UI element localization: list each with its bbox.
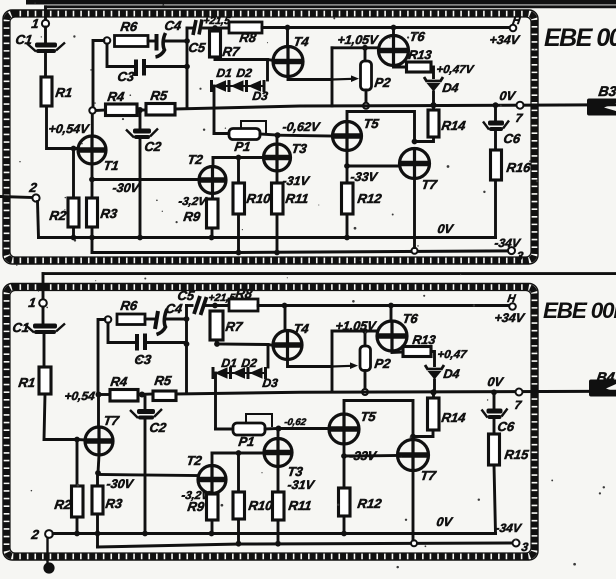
junction T1/R3/-30V net (lower) [95,470,101,476]
wire R4 left lead (lower) [101,393,110,396]
svg-text:-3,2V: -3,2V [181,490,211,502]
junction C3/riser (upper) [184,64,190,70]
svg-text:R8: R8 [235,286,254,301]
svg-text:C3: C3 [134,352,153,367]
junction C5/R7/R8 (lower) [212,303,218,309]
svg-text:D3: D3 [252,89,270,103]
junction T5/R12/T7 base (lower) [341,453,347,459]
wire to P1 left (lower) [216,428,234,431]
wire C3 to riser (upper) [146,65,186,68]
capacitor C4 (upper) [156,33,166,57]
wire R3 to -34V rail (lower) [96,514,99,547]
wire 0V line to R14 (lower) [432,392,435,398]
resistor R7 (lower) [210,311,223,340]
resistor R12 (upper) [342,183,354,214]
svg-text:+34V: +34V [494,311,527,325]
wire T5 collector to T7 collector net (lower) [344,401,413,437]
svg-text:D4: D4 [442,81,460,95]
junction R3 crossing 0V rail (upper) [89,235,95,241]
node R6/C3 left (upper) [104,37,111,44]
wire R7 bottom (lower) [215,340,218,344]
resistor R13 (lower) [403,347,431,357]
wire node to C3 left (upper) [107,44,133,67]
junction P1/T3 collector/-0,62V node (upper) [275,132,281,138]
svg-text:R2: R2 [49,208,68,223]
svg-text:-30V: -30V [106,477,136,491]
svg-text:-0,62V: -0,62V [282,120,322,134]
wire T4 base to diode chain right (upper) [266,60,269,81]
diode D4 (upper) [424,77,443,92]
resistor R4 (lower) [110,390,138,402]
wire R10 to -34V rail (upper) [237,214,240,253]
resistor R5 (upper) [146,104,175,116]
svg-text:R10: R10 [248,498,275,513]
junction R12/0V rail (lower) [341,531,347,537]
wire R7 to T4 base (lower) [217,344,274,346]
junction R4/R5/C2 (upper) [137,107,143,113]
transistor T4 (upper) [273,47,303,77]
capacitor C3 (upper) [136,59,144,76]
wire junction to R2 (lower) [76,440,79,487]
wire R9 to 0V rail (lower) [211,520,214,534]
wire P1 right lead (upper) [260,134,276,135]
wire R7 to T4 base (upper) [215,60,274,61]
junction R9/0V rail (lower) [209,531,215,537]
junction D4/R14/0V line (lower) [430,389,436,395]
wire terminal 2 down out of block (lower) [46,538,48,568]
wire R12 to 0V rail (upper) [346,214,349,238]
wire 0V output line to B4 (lower) [176,391,616,394]
wire node to P2 (lower) [364,331,367,346]
wire P1 wiper bracket (upper) [241,121,266,132]
potentiometer P1 (lower) [233,423,265,435]
wire R15 to 0V rail corner (lower) [494,465,496,534]
wire junction to R10 (upper) [237,158,240,184]
svg-text:T3: T3 [287,464,305,479]
wire riser C4/C3 to 0V output line (upper) [186,28,189,107]
wire terminal1 to C1 (lower) [42,307,45,324]
transistor T5 (lower) [329,414,359,444]
junction T6 collector/+34V (upper) [391,25,397,31]
resistor R8 (lower) [229,299,258,311]
transistor T3 (upper) [264,144,291,171]
junction C4/riser (lower) [184,316,190,322]
svg-text:D2: D2 [241,356,259,370]
wire +34V to T6 collector (upper) [392,28,395,36]
junction T5/R12/T7 base (upper) [344,163,350,169]
capacitor C5 (upper) [193,20,202,36]
wire node down to R4 node (lower) [98,320,105,392]
wire +34V rail (lower) [258,304,509,307]
junction R11/-34V rail (lower) [275,541,281,547]
capacitor C4 (lower) [155,309,167,335]
wire 0V line to C6 (upper) [494,105,497,120]
wire -34V rail (upper) [92,251,511,253]
wire junction to R8 (lower) [215,304,229,307]
terminal 3 (lower block) [513,540,520,547]
wire C1 to R1 (upper) [44,54,47,78]
resistor R10 (lower) [233,492,245,519]
terminal 1 (upper block) [42,20,49,27]
svg-text:T4: T4 [293,34,311,49]
svg-text:R5: R5 [154,373,173,388]
svg-text:+21,5: +21,5 [203,15,231,27]
wire R11 to -34V rail (upper) [276,214,279,253]
svg-text:+34V: +34V [489,33,522,47]
terminal 11 +34V (lower) [509,303,516,310]
potentiometer P2 (lower) [360,346,371,371]
wire terminal 2 down to 0V rail (upper) [38,202,39,238]
svg-text:T6: T6 [409,29,427,44]
P2 wiper arrow (upper) [332,75,359,82]
wire -30V net T1 to T2 base (lower) [98,475,198,476]
diode chain D1 D2 D3 (lower) [213,367,266,379]
wire node down to R4 node (upper) [93,41,104,108]
transistor T7 (lower) [398,440,429,471]
capacitor C1 (lower) [25,324,65,335]
wire R4 to R5 (upper) [137,109,146,112]
svg-text:R9: R9 [183,209,202,224]
svg-text:+0,54V: +0,54V [48,122,92,136]
wire node to C3 left (lower) [108,323,134,343]
junction T6 collector/+34V (lower) [388,303,394,309]
wire 0V line to C6 (lower) [493,392,496,408]
wire P2 top net riser (lower) [331,331,334,392]
wire T3 emitter to R11 (upper) [276,171,279,183]
wire C4 to riser (upper) [166,40,186,43]
wire T2 emitter to R9 (lower) [211,492,214,495]
wire riser to C5 (lower) [187,304,193,307]
svg-text:C4: C4 [165,301,184,316]
svg-text:R13: R13 [412,333,437,347]
transistor T6 (lower) [377,321,407,351]
wire R13 to D4 (lower) [431,352,435,366]
wire R1 to T1 base (lower) [44,394,77,440]
terminal 2 (lower block) [45,530,53,538]
wire junction to T7 base (lower) [344,454,398,457]
resistor R11 (lower) [273,492,285,520]
svg-text:T2: T2 [187,152,205,167]
wire R3 to -34V rail (upper) [91,227,94,253]
capacitor C1 (upper) [27,43,65,54]
wire R7 bottom (upper) [214,57,217,60]
wire +34V to T4 collector (lower) [284,306,287,331]
resistor R3 (upper) [87,198,98,227]
capacitor C5 (lower) [194,296,207,315]
junction T1/R3/-30V net (upper) [89,177,95,183]
wire C4 to riser (lower) [167,318,186,321]
wire C1 to R1 (lower) [43,335,46,367]
wire 0V return rail (upper) [39,236,496,239]
junction T4 collector/+34V (upper) [285,25,291,31]
junction P2 bottom/0V line (upper) [363,103,369,109]
wire input net to terminal 1 (upper block) [46,5,616,8]
wire +34V to T4 collector (upper) [286,28,289,47]
wire 0V return rail (lower) [53,532,496,535]
wire R12 to 0V rail (lower) [343,516,346,534]
wire riser into terminal 1 (lower block) [42,274,45,299]
resistor R7 (upper) [210,31,221,57]
terminal 1 (lower block) [39,299,47,307]
transistor T4 (lower) [273,331,302,360]
wire +34V to T6 collector (lower) [390,306,393,322]
wire R14 bottom elbow (upper) [415,137,434,142]
svg-text:C4: C4 [164,18,183,33]
wire T4 base to diode chain right (lower) [267,345,270,368]
svg-text:R7: R7 [225,319,244,334]
terminal 2 (upper block) [32,194,39,201]
wire node to T5 base (lower) [279,427,330,430]
svg-text:R1: R1 [55,85,74,100]
module frame (lower block EBE 00i) [3,284,538,561]
wire T7 emitter to -34V rail (upper) [413,179,416,248]
svg-text:R11: R11 [288,498,313,513]
wire 0V output line to B3 (upper) [175,105,616,109]
wire node to P2 (upper) [364,48,367,61]
junction P1/T3 collector node (lower) [276,426,282,432]
wire R4/R5 node to C2 (lower) [144,397,147,409]
wire R4 left lead (upper) [96,109,106,112]
svg-text:R15: R15 [504,447,531,462]
wire -34V rail (lower) [98,543,513,547]
wire junction to R3 (lower) [96,473,99,486]
wire R9 to 0V rail (upper) [211,228,214,238]
svg-text:-0,62: -0,62 [284,417,308,428]
resistor R15 (lower) [489,434,500,465]
wire P2 top net riser (upper) [331,48,334,106]
resistor R1 (lower) [39,367,51,394]
terminal 7 (upper) [517,102,524,109]
connector B3 (right edge, upper) [587,99,616,116]
resistor R1 (upper) [41,77,52,106]
wire C5 to R7 top (lower) [205,304,215,307]
terminal 7 (lower) [516,389,523,396]
svg-text:R16: R16 [506,160,533,175]
wire elbow to T2 collector (upper) [212,158,215,167]
diode chain D1 D2 D3 (upper) [212,80,265,92]
svg-text:R11: R11 [285,191,310,206]
junction R7 bottom (lower) [214,341,220,347]
wire T7 emitter to -34V rail (lower) [412,471,415,541]
resistor R3 (lower) [92,486,103,514]
svg-text:D1: D1 [221,356,239,370]
svg-text:R4: R4 [110,374,129,389]
junction C6/0V line (upper) [493,102,499,108]
junction R10/-34V rail (lower) [236,541,242,547]
capacitor C2 (upper) [126,129,158,140]
svg-text:R12: R12 [357,496,384,511]
resistor R4 (upper) [106,104,138,116]
svg-text:R12: R12 [357,191,384,206]
svg-text:R13: R13 [408,48,433,62]
wire T6 emitter to R13 (upper) [394,66,408,68]
svg-text:T5: T5 [363,116,381,131]
wire into T1 base (lower) [77,438,86,441]
svg-text:-3,2V: -3,2V [178,196,208,208]
wire C2 to 0V rail (lower) [144,420,147,534]
svg-text:R10: R10 [246,191,273,206]
wire riser to +1,05V node (lower) [332,330,378,333]
svg-text:P1: P1 [234,139,252,154]
wire C3 to riser (lower) [147,341,186,344]
wire junction to R8 (upper) [215,27,229,30]
junction R10/-34V rail (upper) [236,250,242,256]
svg-text:R14: R14 [441,118,468,133]
svg-text:T7: T7 [420,468,438,483]
resistor R2 (lower) [72,486,84,517]
wire riser into terminal 1 (upper block) [44,7,47,20]
junction R3 crossing 0V rail (lower) [95,531,101,537]
junction R14/T7 collector (upper) [412,139,418,145]
wire junction to R12 (upper) [346,166,349,183]
wire junction to R3 (upper) [91,180,94,199]
junction R12/0V rail (upper) [344,235,350,241]
transistor T1 (lower) [85,427,113,455]
resistor R8 (upper) [229,22,262,33]
resistor R10 (upper) [233,183,245,214]
junction R10 top (upper) [236,155,242,161]
wire T5 emitter down (lower) [343,444,346,456]
wire T4 emitter to P2 wiper net (upper) [288,77,332,80]
wire R4 node to T1 collector (upper) [91,114,94,136]
transistor T2 (upper) [199,167,226,194]
wire R11 to -34V rail (lower) [277,520,280,544]
wire D4 to 0V line (lower) [433,380,436,392]
svg-text:R5: R5 [150,88,169,103]
wire 0V line to R14 (upper) [432,105,435,110]
wire T2 collector to T3 base (upper) [213,156,264,159]
svg-text:-31V: -31V [282,174,312,188]
resistor R9 (upper) [207,199,219,228]
wire +34V rail (upper) [262,26,510,29]
wire P2 bottom (upper) [365,90,368,103]
junction R11/-34V rail (upper) [274,250,280,256]
svg-text:T7: T7 [421,177,439,192]
transistor T7 (upper) [400,149,430,179]
wire T1 emitter down (upper) [91,164,94,180]
svg-text:C5: C5 [188,40,207,55]
svg-text:B3: B3 [598,83,616,99]
svg-text:-34V: -34V [494,236,522,250]
junction R1/R2/T1-base (upper) [71,146,77,152]
junction C4/riser (upper) [184,38,190,44]
wire input net to terminal 1 (lower block) [43,272,616,275]
resistor R12 (lower) [339,488,351,516]
svg-text:+0,54: +0,54 [64,389,97,403]
resistor R5 (lower) [153,391,176,401]
node R6/C3 left (lower) [105,316,112,323]
wire junction to T7 base (upper) [347,165,400,168]
svg-text:EBE 00I: EBE 00I [543,298,616,323]
wire diode chain left down to P1 (upper) [213,86,216,134]
junction R4/R5/C2 (lower) [139,392,145,398]
wire R2 to 0V rail (lower) [76,517,79,534]
svg-text:R6: R6 [120,298,139,313]
wire T4 emitter to P2 wiper net (lower) [288,360,333,367]
junction R10 top (lower) [236,450,242,456]
svg-text:+0,47V: +0,47V [436,64,476,76]
svg-text:-31V: -31V [287,478,317,492]
junction R2/0V rail (upper) [71,235,77,241]
junction C2/0V rail (lower) [142,531,148,537]
svg-text:C5: C5 [177,288,196,303]
wire junction to R2 (upper) [72,149,75,199]
wire junction to R10 (lower) [237,453,240,492]
wire riser C4/C3 to 0V output line (lower) [185,306,188,393]
wire P1 right lead (lower) [265,427,277,430]
wire R10 to -34V rail (lower) [237,519,240,544]
resistor R16 (upper) [491,150,502,180]
wire R14 bottom elbow (lower) [413,430,433,437]
border of cropped block above [26,0,616,5]
svg-text:D1: D1 [216,66,234,80]
capacitor C6 (lower) [482,409,508,420]
wire junction to R12 (lower) [343,456,346,488]
wire C5 to R7 top (upper) [204,27,215,30]
transistor T6 (upper) [379,36,409,66]
svg-text:R4: R4 [107,89,126,104]
svg-text:EBE 00I: EBE 00I [544,24,616,52]
svg-text:R2: R2 [54,497,73,512]
connector B4 (right edge, lower) [589,380,616,397]
terminal 3 (upper block) [508,247,515,254]
wire diode chain left down to P1 (lower) [214,373,217,429]
wire T5 collector to T7 collector net (upper) [347,112,415,142]
junction T7 emitter/-34V rail (upper) [412,248,418,254]
wire node to T5 base (upper) [278,134,333,138]
wire T5 emitter down (upper) [346,151,349,167]
wire C6 to R15 (lower) [493,419,496,434]
P2 wiper arrow (lower) [332,362,358,369]
potentiometer P1 (upper) [229,129,260,140]
wire node to T3 collector (lower) [277,429,280,439]
wire R13 to D4 (upper) [431,67,434,78]
wire riser to +1,05V node (upper) [332,46,379,49]
wire T2 emitter to R9 (upper) [211,194,214,200]
wire P1 wiper bracket (lower) [246,414,272,426]
wire T3 emitter to R11 (lower) [277,467,280,493]
wire R4 to R5 (lower) [138,393,153,396]
junction T4 collector/+34V (lower) [282,303,288,309]
wire R6 to C4 (upper) [148,40,154,43]
junction R1/R2/T1-base (lower) [74,437,80,443]
wire terminal1 to C1 (upper) [44,27,47,43]
junction C5/R7/R8 (upper) [212,25,218,31]
junction C6/0V line (lower) [491,389,497,395]
junction C2/0V rail (upper) [137,235,143,241]
wire C6 to R16 (upper) [494,131,497,150]
wire P2 bottom (lower) [364,371,367,390]
resistor R11 (upper) [272,183,284,214]
resistor R6 (lower) [117,314,145,325]
junction R2/0V rail (lower) [74,531,80,537]
svg-text:C6: C6 [503,131,522,146]
junction P2 top/+1,05V node (upper) [362,45,368,51]
wire D4 to 0V line (upper) [432,92,435,105]
node R4 left / T1 collector (upper) [89,107,95,113]
svg-text:P2: P2 [374,75,393,90]
wire C2 to 0V rail (upper) [139,139,142,238]
svg-text:C1: C1 [12,320,31,335]
capacitor C6 (upper) [483,121,509,132]
svg-text:B4: B4 [596,369,616,385]
connector blob below terminal 2 (lower) [43,562,54,573]
junction R9/0V rail (upper) [209,235,215,241]
junction P2 bottom/0V line (lower) [362,389,368,395]
potentiometer P2 (upper) [361,61,372,90]
svg-text:C1: C1 [15,32,34,47]
wire R4/R5 node to C2 (upper) [139,113,142,128]
